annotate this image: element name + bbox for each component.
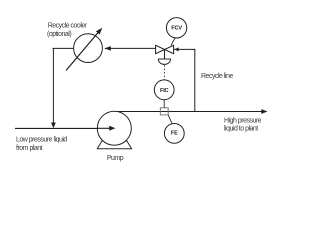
flow element square on line (160, 108, 168, 115)
suction arrow into pump (98, 126, 116, 131)
label: High pressure liquid to plant (224, 117, 262, 132)
instrument bubble FIC (154, 80, 174, 100)
wire: recycle line vertical (194, 49, 196, 112)
connection square to FE (168, 115, 172, 124)
valve actuator diaphragm (158, 59, 170, 64)
svg-text:FIC: FIC (160, 88, 169, 94)
instrument bubble FCV (166, 18, 186, 38)
pump base (97, 141, 131, 149)
connection FIC to flow element (163, 100, 165, 108)
control valve body FCV (156, 45, 174, 53)
svg-text:Recycle cooler: Recycle cooler (48, 22, 88, 29)
heat exchanger: recycle cooler (66, 28, 102, 71)
label: Recycle cooler (optional) (47, 22, 88, 38)
wire: top line corner to cooler (53, 47, 75, 49)
svg-text:Pump: Pump (107, 155, 124, 162)
svg-text:Low pressure liquid: Low pressure liquid (16, 136, 67, 143)
valve stem (164, 50, 166, 60)
label: Low pressure liquid from plant (16, 136, 67, 152)
signal line FCV bubble to valve (171, 38, 175, 46)
svg-text:FE: FE (171, 130, 178, 136)
svg-text:(optional): (optional) (47, 31, 71, 38)
svg-text:liquid to plant: liquid to plant (224, 126, 258, 133)
instrument bubble FE (164, 123, 184, 143)
pump P1 (97, 111, 131, 145)
svg-text:Recycle line: Recycle line (201, 73, 233, 80)
wire: cooler to valve with flow arrow into cooler (105, 46, 156, 51)
wire: discharge line to plant (114, 109, 268, 114)
svg-text:from plant: from plant (16, 145, 43, 152)
svg-text:FCV: FCV (171, 26, 182, 32)
svg-text:High pressure: High pressure (224, 117, 262, 124)
signal line (dashed) actuator to FIC (163, 65, 165, 80)
wire: valve to recycle corner with flow arrow into valve (174, 47, 196, 51)
wire: suction line from plant (15, 126, 115, 131)
wire: recycle return vertical line (51, 48, 56, 128)
